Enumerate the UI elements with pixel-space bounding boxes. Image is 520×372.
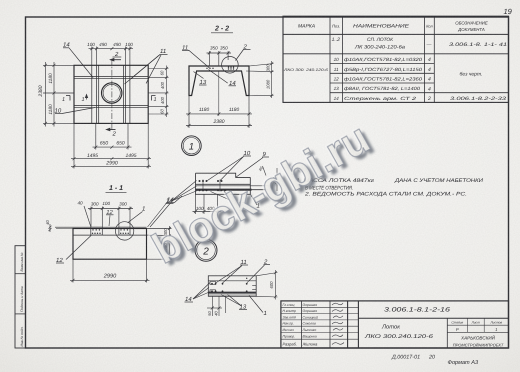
notch rebar dots — [92, 229, 129, 234]
right sub-block — [446, 318, 448, 348]
section mark 2 top — [111, 57, 122, 61]
detail 2 label 13 — [221, 295, 247, 311]
section 2-2 bottom dimension 2380 — [186, 116, 252, 128]
section 2-2 bottom dimension 1180 1180 — [186, 96, 252, 129]
detail circle 1 on section — [115, 222, 133, 240]
section mark 2 bottom — [107, 128, 116, 130]
organization name — [453, 335, 504, 348]
table row lines — [283, 33, 509, 35]
table rows 10-14 — [283, 57, 507, 102]
embedded plate notches — [91, 227, 130, 235]
signature squiggles — [332, 303, 344, 345]
stadia list cells — [451, 320, 502, 332]
section 1-1 right dims 300 1080 — [147, 226, 172, 262]
detail 2 label 14 — [185, 283, 211, 304]
detail 1 right dim 280 — [272, 168, 277, 191]
detail 1 label 10 — [207, 150, 251, 181]
table column lines — [329, 16, 331, 102]
left 40 dim — [49, 224, 52, 232]
detail circle 2 (dashed) — [222, 57, 239, 74]
plan right small dimensions — [148, 66, 168, 118]
designation cell line — [358, 317, 508, 319]
rebar dots in slab — [206, 67, 234, 70]
section 1-1 body — [55, 227, 147, 259]
detail 2 left bottom dims 50 40 — [207, 296, 226, 316]
section 2-2 axis line — [111, 59, 113, 131]
section 2-2 top dimension 350 350 — [207, 51, 232, 66]
table header texts — [298, 21, 488, 33]
label 14 top right of section — [148, 196, 183, 227]
detail 1 small 40 dim — [257, 165, 266, 175]
section 1-1 top dims 40 300 100 300 — [84, 206, 133, 227]
channel center axis — [218, 72, 220, 117]
section 2-2 right dimensions 300 1080 — [246, 61, 274, 98]
detail 1 label 12 — [211, 192, 246, 209]
detail 1 label 9 — [236, 151, 269, 177]
detail 1 balloon — [182, 136, 202, 156]
detail 2 dots — [211, 278, 248, 293]
plan rebar horizontals pos.10 — [74, 77, 148, 108]
channel cross-section outline — [189, 66, 249, 96]
label 10 leader — [55, 108, 95, 114]
section mark 1 right — [152, 96, 156, 101]
detail 2 label 1 — [249, 296, 267, 318]
label 2 with leader — [236, 44, 251, 61]
diagonal rebar leader line — [66, 235, 91, 259]
plan bottom dimension 1495 1495 — [71, 123, 151, 168]
plan left dimension 1180/1180 — [43, 62, 74, 127]
title block outline — [281, 301, 509, 348]
label 12 bottom left — [56, 257, 64, 264]
section 1-1 bottom dim 2990 — [70, 259, 150, 282]
detail 1 label 14 — [166, 181, 198, 205]
section 2-2 title — [211, 26, 233, 33]
section mark 1 left outside — [66, 96, 70, 101]
title block verticals — [301, 301, 303, 348]
detail 2 balloon — [195, 239, 217, 261]
hole circle — [102, 83, 122, 103]
plan outline — [74, 65, 148, 123]
label 14 leader — [63, 48, 93, 78]
left strip rotated captions — [20, 252, 24, 346]
detail 2 label 11 — [216, 259, 248, 283]
watermark block-gbi.ru — [142, 111, 382, 278]
title block signature rows — [281, 306, 359, 308]
table outline — [283, 16, 509, 102]
detail 1 rebar dots row2 — [199, 189, 227, 191]
signature area texts — [283, 303, 319, 347]
plan rebar verticals pos.11 — [92, 65, 130, 123]
plan bottom dimension 2990 — [71, 165, 151, 168]
label 1 leader on section — [128, 206, 145, 223]
detail 1 bottom dims 100 400 — [193, 194, 221, 218]
section 1-1 title — [106, 185, 127, 192]
label 13 with leader — [194, 72, 207, 87]
detail 1 label 1 — [251, 195, 260, 210]
left attribute strip — [15, 246, 26, 348]
detail 1 rebar dots row1 — [199, 180, 223, 182]
detail 2 label 2 — [247, 259, 270, 283]
label 11 leaders — [125, 55, 168, 85]
detail 2 body — [208, 276, 256, 297]
detail 1 body — [196, 173, 273, 194]
label 11 with leader — [182, 45, 210, 69]
label 12 top — [106, 209, 114, 226]
detail 2 right dim 600 — [256, 270, 277, 300]
table row 1 — [332, 37, 508, 51]
plan bottom dimension 650 650 — [93, 123, 132, 149]
plan top dimension 100 490 490 100 — [89, 47, 134, 66]
label 14 with long leader — [209, 70, 237, 87]
